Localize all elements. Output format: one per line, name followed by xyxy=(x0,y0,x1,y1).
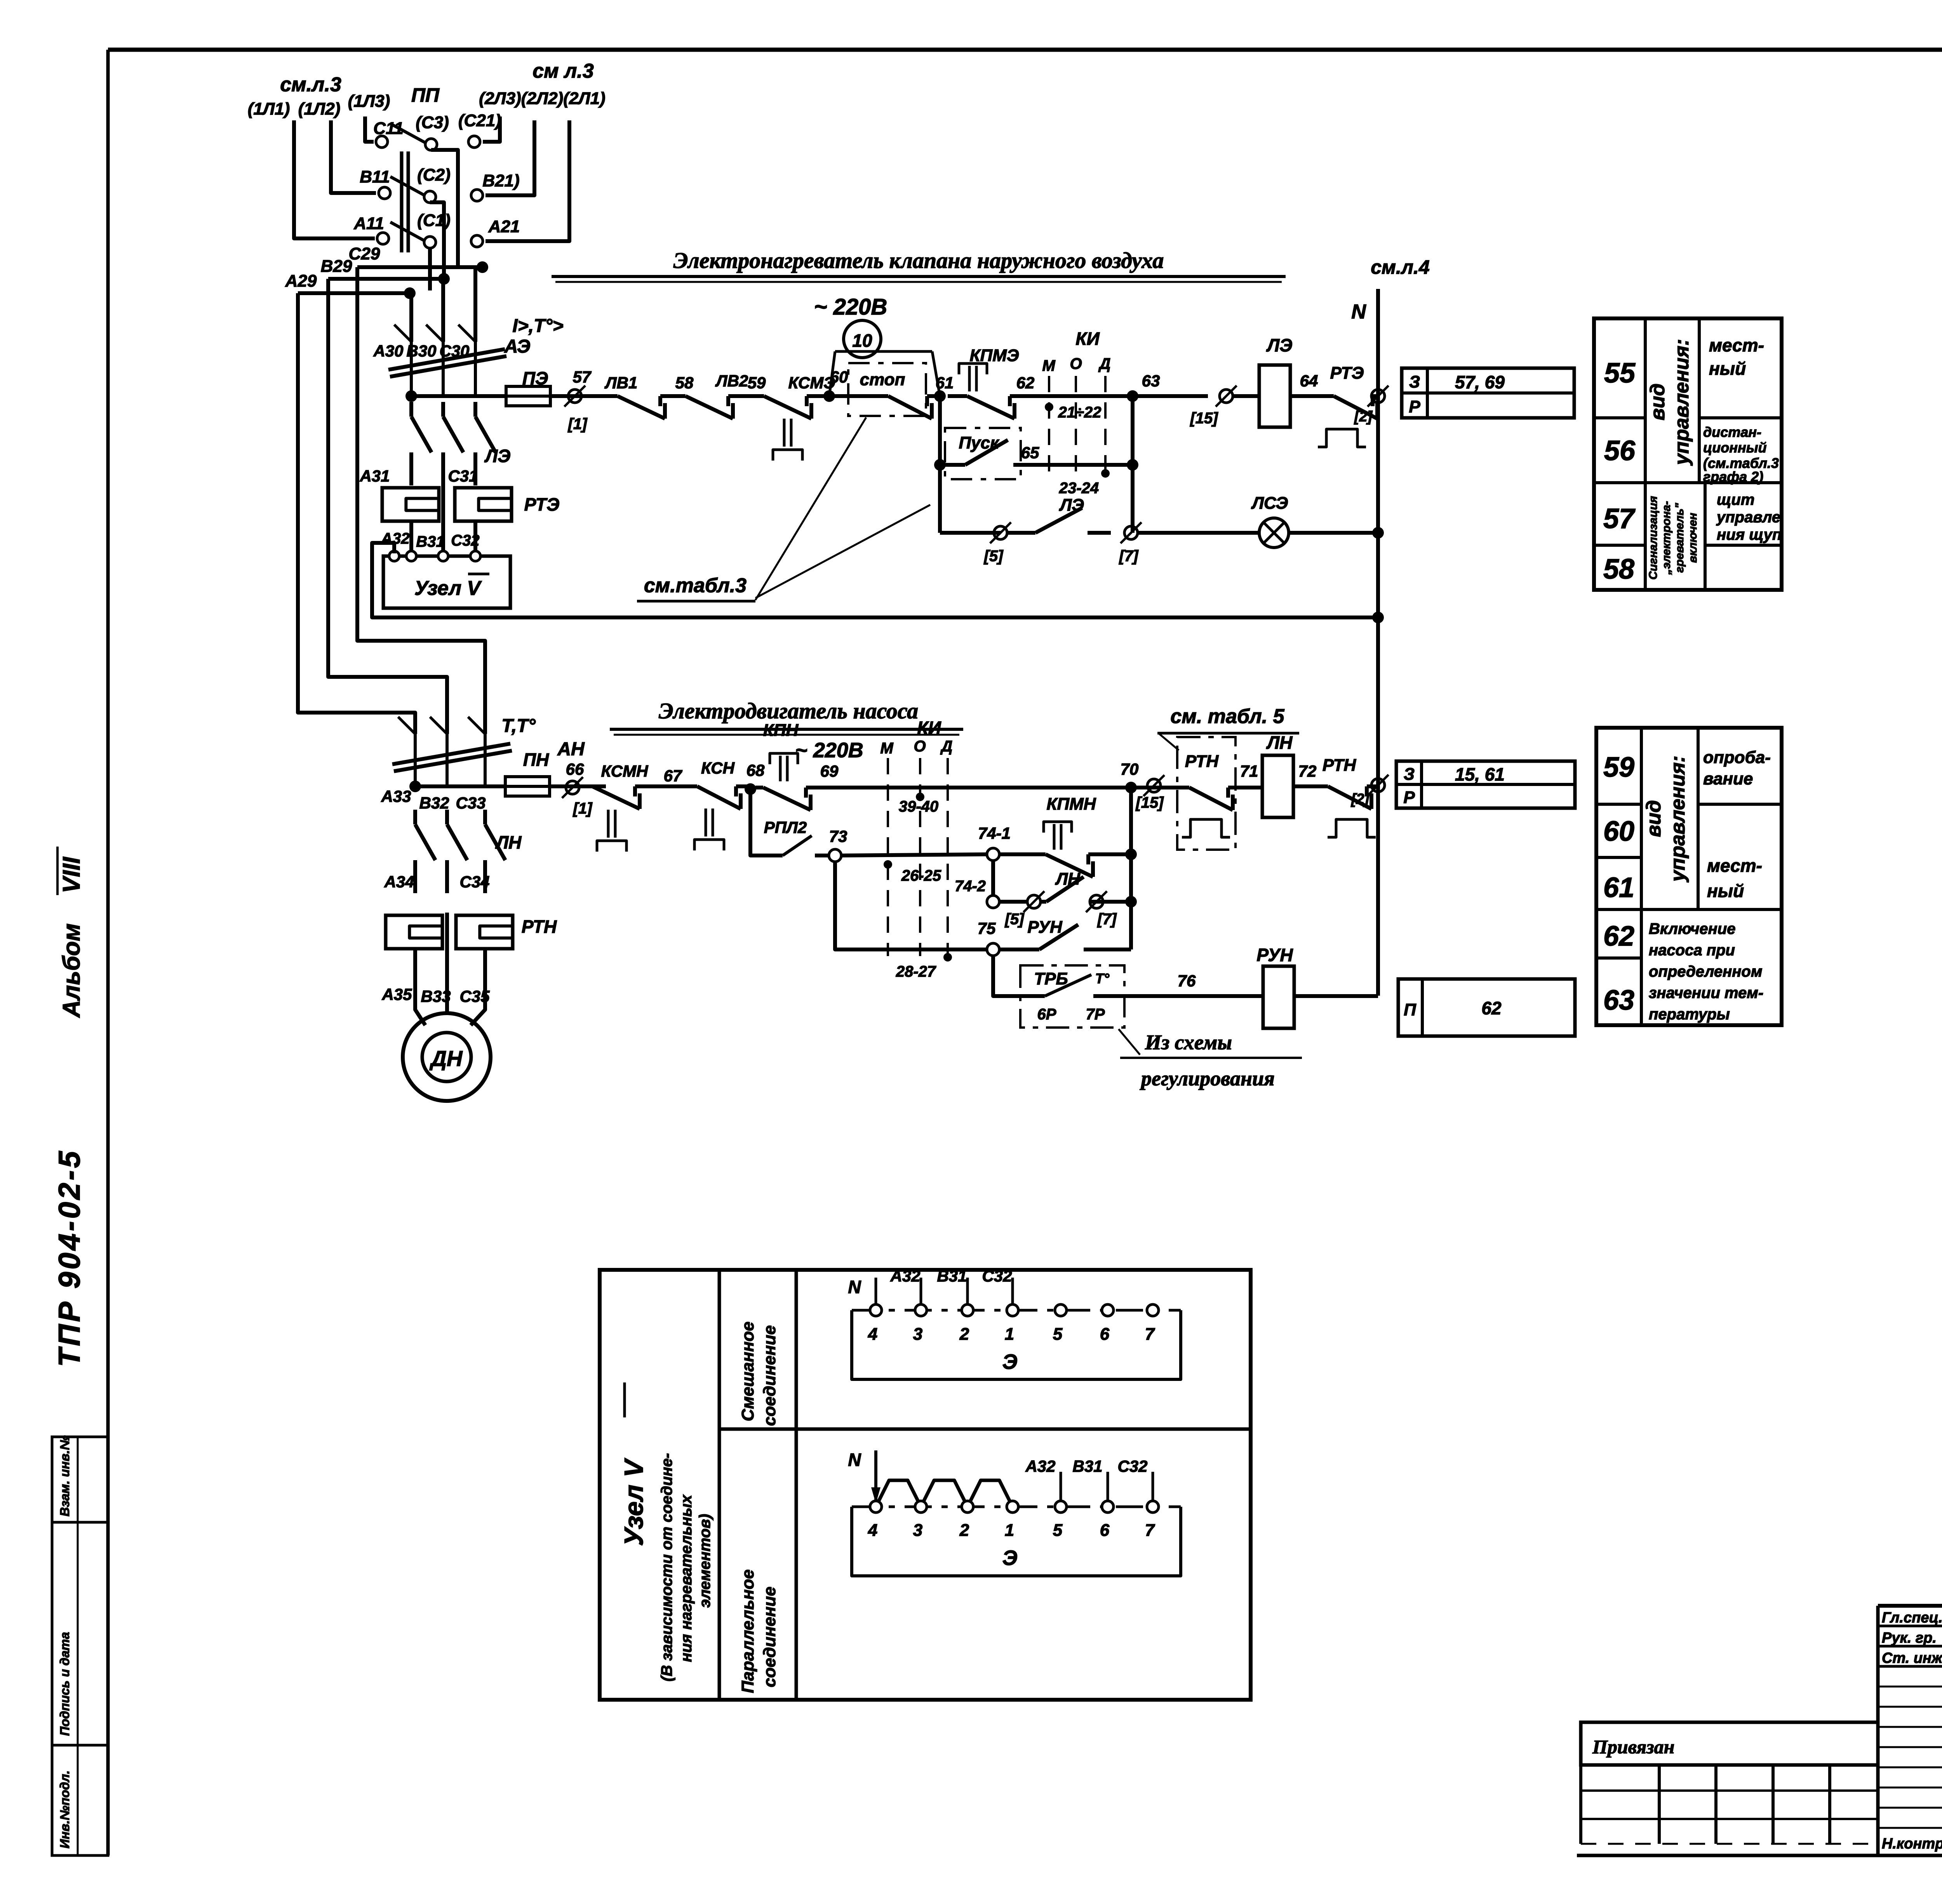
svg-text:П: П xyxy=(1404,1000,1416,1019)
wire 2Л3 to terminal С21 xyxy=(483,117,500,142)
svg-text:63: 63 xyxy=(1603,985,1634,1016)
tap dot on lead М xyxy=(1045,403,1053,411)
svg-text:ЛВ1: ЛВ1 xyxy=(604,374,638,392)
svg-text:С32: С32 xyxy=(451,532,479,549)
svg-text:N: N xyxy=(848,1450,861,1470)
svg-text:74-1: 74-1 xyxy=(978,824,1011,842)
svg-text:(1Л2): (1Л2) xyxy=(298,99,340,118)
svg-text:см.л.4: см.л.4 xyxy=(1371,256,1430,278)
svg-text:Включение: Включение xyxy=(1649,920,1736,937)
svg-text:ПН: ПН xyxy=(523,749,549,770)
svg-text:С31: С31 xyxy=(448,467,478,485)
svg-text:В31: В31 xyxy=(937,1267,967,1285)
svg-text:Гл.спец.: Гл.спец. xyxy=(1882,1610,1942,1626)
left margin stamp column boxes xyxy=(52,1437,108,1855)
svg-text:Э: Э xyxy=(1002,1546,1018,1570)
svg-text:6: 6 xyxy=(1100,1325,1110,1344)
svg-text:4: 4 xyxy=(868,1325,877,1344)
svg-text:Альбом: Альбом xyxy=(58,923,85,1018)
svg-text:69: 69 xyxy=(820,762,839,780)
svg-text:управления:: управления: xyxy=(1667,756,1689,883)
wire phase C feeder down to pump breaker xyxy=(357,267,485,734)
svg-text:насоса при: насоса при xyxy=(1649,942,1735,959)
svg-text:ЛЭ: ЛЭ xyxy=(1266,335,1293,355)
svg-text:5: 5 xyxy=(1053,1521,1063,1540)
svg-text:[15]: [15] xyxy=(1189,410,1218,427)
svg-text:ТПР 904-02-5: ТПР 904-02-5 xyxy=(52,1149,86,1367)
tap dot on lead М (pump) xyxy=(884,860,892,869)
switch ПП blade С1 xyxy=(390,222,425,241)
svg-text:5: 5 xyxy=(1053,1325,1063,1344)
svg-text:ДН: ДН xyxy=(430,1046,463,1071)
function table rows 59-63 xyxy=(1596,728,1782,1025)
wire С1 down to bus А29 xyxy=(428,248,432,290)
wire 2Л2 to terminal В21 xyxy=(486,120,534,195)
svg-text:6: 6 xyxy=(1100,1521,1110,1540)
svg-text:элементов): элементов) xyxy=(696,1514,713,1608)
svg-text:(1Л1): (1Л1) xyxy=(248,99,290,118)
switch ПП movable bars xyxy=(400,151,404,252)
svg-text:вание: вание xyxy=(1703,769,1753,788)
switch КСМЭ with manual drive xyxy=(742,394,764,398)
svg-text:55: 55 xyxy=(1604,358,1636,389)
svg-text:(С2): (С2) xyxy=(417,165,451,184)
mixed diagram element box Э xyxy=(852,1310,1181,1379)
svg-text:мест-: мест- xyxy=(1709,335,1764,355)
thermal element РТН phase C xyxy=(456,915,513,949)
terminal А11 xyxy=(377,233,389,244)
svg-text:Смешанное: Смешанное xyxy=(738,1321,757,1421)
tap dot on lead О (pump) xyxy=(916,793,924,801)
svg-text:74-2: 74-2 xyxy=(955,878,986,895)
svg-text:О: О xyxy=(914,738,926,755)
mixed diagram terminals 1-7 xyxy=(870,1304,882,1316)
signal tap from node 61 down xyxy=(938,396,942,533)
circuit breaker АН xyxy=(414,734,417,786)
svg-text:Р: Р xyxy=(1409,397,1420,416)
svg-text:ПП: ПП xyxy=(411,84,440,106)
svg-text:значении тем-: значении тем- xyxy=(1649,984,1763,1002)
svg-text:М: М xyxy=(880,740,894,757)
wire 1Л2 to terminal В11 xyxy=(331,120,376,193)
junction node 70 xyxy=(1125,782,1137,793)
svg-text:РПЛ2: РПЛ2 xyxy=(764,818,807,836)
svg-text:РТЭ: РТЭ xyxy=(524,494,560,515)
wire С2 down to bus В29 xyxy=(430,202,444,279)
svg-text:65: 65 xyxy=(1021,443,1039,462)
junction node 61 xyxy=(934,390,946,402)
terminal 74-2 xyxy=(987,895,999,908)
svg-text:[1]: [1] xyxy=(573,800,593,817)
terminal А32 on Узел V xyxy=(406,551,416,561)
motor ДН xyxy=(403,1013,491,1101)
svg-text:А33: А33 xyxy=(381,787,411,805)
pump control tap junction А33 xyxy=(409,781,421,792)
junction node 70 drop xyxy=(1129,788,1133,949)
svg-text:Инв.№подл.: Инв.№подл. xyxy=(57,1770,72,1848)
terminal on Узел V (bypass) xyxy=(389,551,399,561)
title block signature rows grid xyxy=(1878,1625,1942,1628)
svg-text:см л.3: см л.3 xyxy=(532,60,594,82)
svg-text:64: 64 xyxy=(1300,372,1318,390)
svg-text:7: 7 xyxy=(1145,1325,1155,1344)
svg-text:(В зависимости от соедине-: (В зависимости от соедине- xyxy=(658,1453,675,1681)
wire across КИ leads (pump row) xyxy=(888,786,1131,789)
svg-text:ный: ный xyxy=(1707,881,1744,901)
wire phase A feeder down to pump breaker xyxy=(298,293,415,734)
svg-text:греватель": греватель" xyxy=(1673,503,1686,573)
wire 74-1 down to 74-2 xyxy=(991,861,995,895)
svg-text:62: 62 xyxy=(1481,998,1502,1018)
relay coil ЛН xyxy=(1262,755,1293,817)
svg-text:63: 63 xyxy=(1142,372,1160,390)
wire А30 junction to fuse ПЭ xyxy=(411,394,506,398)
svg-text:ЛЭ: ЛЭ xyxy=(1059,496,1084,515)
wire [7] to lamp ЛСЭ xyxy=(1138,531,1260,535)
wire КПМН to node70 leg xyxy=(1109,852,1131,856)
svg-text:(1Л3): (1Л3) xyxy=(348,92,390,111)
fuse ПЭ xyxy=(506,386,550,406)
svg-text:(С21): (С21) xyxy=(458,111,501,130)
relay coil ЛЭ xyxy=(1233,394,1260,398)
svg-text:[7]: [7] xyxy=(1119,548,1139,565)
wire coil РУН to N xyxy=(1294,994,1378,998)
thermal contact РТН no.1 with hook xyxy=(1177,786,1189,789)
junction neutral bus / Узел V return xyxy=(1372,612,1384,623)
relay coil РУН xyxy=(1263,966,1294,1028)
svg-text:В11: В11 xyxy=(360,167,390,186)
svg-text:С30: С30 xyxy=(439,342,469,360)
terminal С32 on Узел V xyxy=(470,551,480,561)
svg-text:определенном: определенном xyxy=(1649,963,1762,980)
svg-text:стоп: стоп xyxy=(860,370,905,389)
svg-text:вид: вид xyxy=(1643,800,1665,837)
svg-text:регулирования: регулирования xyxy=(1140,1067,1275,1090)
svg-text:57, 69: 57, 69 xyxy=(1455,372,1505,392)
svg-text:З: З xyxy=(1409,372,1420,391)
wire АЭ pole C from bus xyxy=(473,267,477,342)
svg-text:T,Т°: T,Т° xyxy=(501,716,536,736)
terminal slash [15] (heater) xyxy=(1220,389,1233,403)
svg-text:[2]: [2] xyxy=(1351,791,1370,807)
svg-text:ЛЭ: ЛЭ xyxy=(484,446,511,466)
contact ЛВ2 xyxy=(672,394,686,398)
wire node 57 xyxy=(550,394,606,398)
terminal slash [5] (signal row) xyxy=(994,526,1007,539)
terminal (С21) xyxy=(468,136,480,148)
svg-text:Т°: Т° xyxy=(1095,970,1110,986)
wire across КИ leads (heater row) xyxy=(1049,394,1133,398)
signal row wire to lamp xyxy=(940,531,1001,535)
svg-text:Из схемы: Из схемы xyxy=(1145,1031,1232,1054)
svg-text:N: N xyxy=(848,1277,861,1297)
parallel diagram element box Э xyxy=(852,1507,1181,1576)
wire 1Л1 to terminal А11 xyxy=(294,120,375,238)
svg-text:В31: В31 xyxy=(1072,1457,1102,1475)
svg-text:[5]: [5] xyxy=(983,548,1004,565)
svg-text:РТЭ: РТЭ xyxy=(1330,363,1364,383)
svg-text:С32: С32 xyxy=(1117,1457,1147,1475)
wire АЭ pole A from bus xyxy=(409,293,413,342)
terminal slash on N (heater row) xyxy=(1371,389,1385,403)
wire 1Л3 to terminal С11 xyxy=(365,117,374,142)
svg-text:7Р: 7Р xyxy=(1086,1006,1105,1023)
thermal element РТЭ phase C xyxy=(455,488,512,521)
svg-text:Рук. гр.: Рук. гр. xyxy=(1882,1630,1937,1646)
wire phase B feeder down to pump breaker xyxy=(328,279,447,734)
svg-text:21÷22: 21÷22 xyxy=(1058,404,1102,421)
svg-text:КСН: КСН xyxy=(701,759,735,777)
svg-text:Узел V: Узел V xyxy=(619,1457,649,1546)
contactor ЛЭ pole contacts xyxy=(409,402,413,417)
svg-text:Э: Э xyxy=(1002,1350,1018,1374)
title block left column verticals xyxy=(1876,1606,1880,1855)
bus С29 horizontal xyxy=(357,265,482,269)
wire node63 leg down to signal row xyxy=(1131,396,1135,533)
dashed enclosure РТН sensor xyxy=(1177,737,1236,850)
svg-text:КСМН: КСМН xyxy=(601,762,649,780)
svg-text:1: 1 xyxy=(1005,1521,1014,1540)
switch ПП blade С3 xyxy=(392,124,426,143)
svg-text:включен: включен xyxy=(1686,513,1699,563)
svg-text:Д: Д xyxy=(940,738,953,755)
terminal А21 xyxy=(471,235,483,247)
terminal slash on N (pump row) xyxy=(1371,779,1385,792)
svg-text:В32: В32 xyxy=(419,794,449,812)
svg-text:6Р: 6Р xyxy=(1037,1006,1056,1023)
start button dashed enclosure xyxy=(945,428,1021,479)
junction node 63 xyxy=(1127,390,1138,402)
signal lamp ЛСЭ xyxy=(1259,518,1289,548)
heater control tap junction А30 xyxy=(405,390,417,402)
svg-text:56: 56 xyxy=(1604,435,1636,466)
svg-text:А32: А32 xyxy=(1025,1457,1055,1475)
svg-text:[7]: [7] xyxy=(1097,911,1117,928)
circuit breaker АЭ xyxy=(410,342,413,396)
svg-text:А34: А34 xyxy=(384,873,414,891)
switch КСМН with manual drive xyxy=(583,784,592,788)
svg-text:62: 62 xyxy=(1016,374,1035,392)
svg-text:VIII: VIII xyxy=(58,856,85,893)
reference box П 62 xyxy=(1398,979,1575,1036)
wire fuse to point 66 xyxy=(550,784,606,788)
bus А29 horizontal xyxy=(298,291,410,295)
svg-text:61: 61 xyxy=(1603,872,1634,903)
svg-text:I>,T°>: I>,T°> xyxy=(512,316,563,336)
junction node 68 xyxy=(740,784,750,788)
svg-text:58: 58 xyxy=(675,374,694,392)
svg-text:73: 73 xyxy=(829,827,847,845)
svg-text:М: М xyxy=(1042,357,1056,374)
junction on bus А29 xyxy=(404,287,416,299)
wire node 72 xyxy=(1293,784,1317,788)
svg-text:ния щуп: ния щуп xyxy=(1717,526,1782,543)
svg-text:пературы: пературы xyxy=(1649,1006,1730,1023)
title block outer top line xyxy=(1878,1604,1942,1608)
svg-text:мест-: мест- xyxy=(1707,855,1762,876)
thermal element РТЭ phase A xyxy=(382,488,439,521)
contact КПМЭ (break, push) xyxy=(948,394,967,398)
svg-text:3: 3 xyxy=(913,1325,922,1344)
terminal (С2) xyxy=(424,191,436,203)
svg-text:[15]: [15] xyxy=(1135,794,1164,811)
svg-text:Сигнализация: Сигнализация xyxy=(1647,496,1660,580)
svg-text:60: 60 xyxy=(1603,816,1634,847)
wire node 67 xyxy=(645,784,694,788)
svg-text:~ 220В: ~ 220В xyxy=(795,739,863,762)
svg-text:С29: С29 xyxy=(349,244,380,263)
svg-text:Узел V: Узел V xyxy=(414,577,482,600)
svg-text:КПМЭ: КПМЭ xyxy=(970,346,1019,365)
terminal (С3) xyxy=(425,139,437,150)
wire Узел V bypass to neutral bus xyxy=(372,543,1378,617)
svg-text:59: 59 xyxy=(1603,752,1634,783)
svg-text:О: О xyxy=(1070,355,1082,372)
bus В29 horizontal xyxy=(328,277,444,281)
wires РТН elements to motor xyxy=(415,949,425,1025)
svg-text:Электродвигатель насоса: Электродвигатель насоса xyxy=(659,698,918,723)
svg-text:71: 71 xyxy=(1240,762,1258,780)
svg-text:2: 2 xyxy=(959,1325,969,1344)
wire node 69 xyxy=(814,786,888,789)
svg-text:А29: А29 xyxy=(285,271,317,290)
svg-text:Ст. инж: Ст. инж xyxy=(1882,1650,1942,1666)
contact РУН (seal-in) xyxy=(999,948,1015,951)
svg-text:управле: управле xyxy=(1716,509,1780,526)
svg-text:КСМЭ: КСМЭ xyxy=(788,374,835,392)
svg-text:ный: ный xyxy=(1709,358,1746,379)
svg-text:(С3): (С3) xyxy=(416,113,449,132)
svg-text:Подпись и дата: Подпись и дата xyxy=(57,1632,72,1736)
svg-text:39-40: 39-40 xyxy=(899,798,938,815)
wire node 64 xyxy=(1290,394,1328,398)
svg-text:дистан-: дистан- xyxy=(1703,424,1761,440)
svg-text:[1]: [1] xyxy=(567,416,588,433)
wire 73 down to row 75 xyxy=(835,863,987,949)
terminal С11 xyxy=(376,136,388,148)
neutral wire N vertical xyxy=(1376,289,1380,996)
svg-text:АН: АН xyxy=(557,739,585,760)
svg-text:23-24: 23-24 xyxy=(1059,480,1099,497)
svg-text:А21: А21 xyxy=(488,217,520,236)
switch КСН with manual drive xyxy=(694,784,697,788)
svg-text:70: 70 xyxy=(1121,760,1139,778)
svg-text:графа 2): графа 2) xyxy=(1703,469,1763,485)
svg-text:управления:: управления: xyxy=(1671,339,1693,466)
svg-text:ЛВ2: ЛВ2 xyxy=(715,372,748,390)
svg-text:57: 57 xyxy=(573,368,592,386)
sheet frame left border xyxy=(106,50,110,1855)
svg-text:62: 62 xyxy=(1603,921,1634,952)
parallel diagram jumpers between terminals xyxy=(878,1480,919,1502)
svg-text:АЭ: АЭ xyxy=(504,336,531,357)
wire РУН contact to node70 leg xyxy=(1103,948,1131,951)
junction on node63 leg xyxy=(1127,459,1138,471)
wire 73 row to 74-1 xyxy=(841,854,987,855)
svg-text:ПЭ: ПЭ xyxy=(522,368,548,388)
svg-text:С34: С34 xyxy=(459,873,489,891)
terminal slash 66 [1] xyxy=(566,781,579,794)
svg-text:Взам. инв.№: Взам. инв.№ xyxy=(57,1435,72,1516)
svg-text:66: 66 xyxy=(566,760,584,778)
junction on bus С29 xyxy=(477,261,488,273)
wire С3 down to bus С29 xyxy=(431,150,458,267)
svg-text:68: 68 xyxy=(747,761,765,779)
attachment box Привязан xyxy=(1581,1722,1878,1765)
svg-text:КПМН: КПМН xyxy=(1046,795,1096,814)
svg-text:[5]: [5] xyxy=(1004,911,1025,928)
svg-text:3: 3 xyxy=(913,1521,922,1540)
contact КПМН (break, push) xyxy=(999,852,1025,856)
node Узел V box xyxy=(383,556,510,608)
terminal slash [7] (signal row) xyxy=(1124,526,1138,539)
terminal В11 xyxy=(379,187,390,199)
svg-text:N: N xyxy=(1351,301,1366,323)
wire РТЭ to node А32 xyxy=(409,521,413,556)
svg-text:ЛСЭ: ЛСЭ xyxy=(1251,494,1288,513)
svg-text:РУН: РУН xyxy=(1256,945,1293,965)
junction on bus В29 xyxy=(438,273,450,285)
svg-text:РТН: РТН xyxy=(1323,756,1357,775)
junction lamp row on N xyxy=(1372,527,1384,539)
thermal contact РТН no.2 with hook xyxy=(1317,784,1328,788)
svg-text:А32: А32 xyxy=(890,1267,920,1285)
svg-text:59: 59 xyxy=(748,374,766,392)
junction node 60 xyxy=(823,390,835,402)
svg-text:КПН: КПН xyxy=(763,721,799,740)
contact ЛЭ (signal) xyxy=(1007,531,1035,535)
svg-text:58: 58 xyxy=(1603,554,1634,585)
terminal В31 on Узел V xyxy=(438,551,448,561)
svg-text:Привязан: Привязан xyxy=(1592,1736,1674,1758)
reference box З/Р 57,69 xyxy=(1402,368,1574,418)
svg-text:В29: В29 xyxy=(321,257,352,276)
svg-text:С32: С32 xyxy=(982,1267,1012,1285)
svg-text:67: 67 xyxy=(664,767,682,785)
svg-text:А11: А11 xyxy=(353,214,384,233)
svg-text:С33: С33 xyxy=(456,794,486,812)
svg-text:„электрона-: „электрона- xyxy=(1660,501,1673,575)
svg-text:72: 72 xyxy=(1298,762,1317,780)
contact ТРБ (temperature) xyxy=(1020,994,1045,998)
svg-text:щит: щит xyxy=(1717,491,1754,508)
switch ПП blade С2 xyxy=(390,177,425,195)
terminal В21 xyxy=(471,190,483,201)
wire 75 down to ТРБ xyxy=(993,956,1020,996)
attachment sub-table xyxy=(1579,1765,1582,1844)
svg-text:А30: А30 xyxy=(373,342,403,360)
parallel diagram terminals 1-7 xyxy=(870,1501,882,1513)
svg-text:см.л.3: см.л.3 xyxy=(280,73,341,96)
svg-text:Д: Д xyxy=(1098,355,1111,372)
svg-text:В30: В30 xyxy=(406,342,436,360)
svg-text:ЛН: ЛН xyxy=(1266,732,1293,753)
svg-text:РТН: РТН xyxy=(1185,752,1219,771)
svg-text:76: 76 xyxy=(1178,972,1196,990)
svg-text:ТРБ: ТРБ xyxy=(1034,969,1068,988)
svg-text:В21): В21) xyxy=(482,171,519,190)
thermal contact РТЭ (NC) with reset hook xyxy=(1328,394,1334,398)
svg-text:ционный: ционный xyxy=(1703,440,1766,456)
svg-text:соединение: соединение xyxy=(760,1587,779,1687)
push-button КПН (break) xyxy=(755,786,763,789)
svg-text:Н.контр.: Н.контр. xyxy=(1882,1836,1942,1852)
wire 63 to РТЭ contact xyxy=(1133,394,1208,398)
stop button dashed enclosure xyxy=(848,363,926,416)
svg-text:1: 1 xyxy=(1005,1325,1014,1344)
svg-text:З: З xyxy=(1404,765,1415,784)
svg-text:28-27: 28-27 xyxy=(896,963,936,980)
